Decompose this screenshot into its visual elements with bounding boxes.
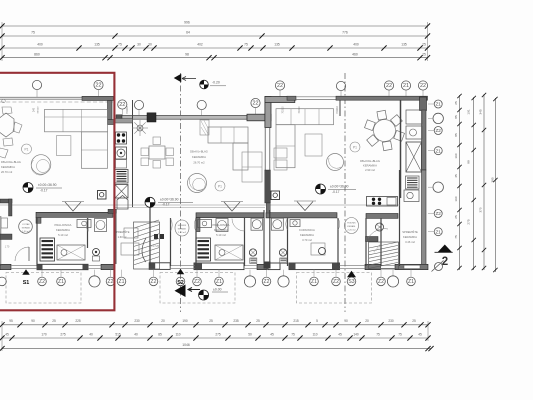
svg-text:26.70 m2: 26.70 m2 [1, 170, 13, 174]
svg-text:40: 40 [89, 333, 93, 337]
svg-text:25: 25 [454, 215, 458, 219]
svg-text:240: 240 [33, 107, 36, 112]
svg-text:275: 275 [467, 219, 471, 224]
svg-text:385: 385 [491, 177, 495, 182]
svg-text:DB+KOH+BLAG: DB+KOH+BLAG [360, 159, 380, 163]
svg-text:75: 75 [291, 333, 295, 337]
svg-text:25: 25 [454, 101, 458, 105]
svg-text:Z2: Z2 [39, 279, 45, 285]
svg-text:1.73 m2: 1.73 m2 [178, 232, 187, 234]
svg-text:45: 45 [270, 333, 274, 337]
svg-text:2.20 m2: 2.20 m2 [348, 230, 357, 232]
svg-text:190: 190 [182, 319, 188, 323]
svg-text:30: 30 [137, 43, 141, 47]
svg-text:75: 75 [376, 333, 380, 337]
svg-text:P1: P1 [353, 145, 357, 149]
svg-text:±0.00: ±0.00 [213, 288, 222, 292]
svg-text:22: 22 [252, 101, 258, 107]
svg-text:Z1: Z1 [311, 279, 317, 285]
svg-text:275: 275 [60, 333, 66, 337]
svg-text:45: 45 [5, 333, 9, 337]
svg-text:25: 25 [52, 319, 56, 323]
svg-text:70/210: 70/210 [299, 106, 301, 114]
svg-text:Z2: Z2 [435, 128, 441, 133]
svg-text:KERAMIKA: KERAMIKA [403, 235, 417, 239]
svg-text:30: 30 [148, 43, 152, 47]
svg-text:160: 160 [454, 153, 458, 158]
svg-text:2 h 17.25: 2 h 17.25 [149, 245, 160, 248]
svg-text:1.60 m²: 1.60 m² [118, 235, 127, 239]
svg-text:50: 50 [248, 333, 252, 337]
svg-text:Z2: Z2 [333, 279, 339, 285]
svg-text:3.70 m2: 3.70 m2 [302, 238, 312, 242]
svg-text:Z1: Z1 [435, 229, 441, 234]
svg-text:Z1: Z1 [435, 148, 441, 153]
svg-text:Z2: Z2 [264, 279, 270, 285]
svg-text:135: 135 [274, 43, 280, 47]
svg-text:±0.00=36.90: ±0.00=36.90 [38, 183, 57, 187]
svg-text:88: 88 [467, 160, 471, 164]
svg-text:KERAMIKA: KERAMIKA [56, 228, 70, 232]
svg-text:22: 22 [277, 83, 283, 89]
svg-text:-0.20: -0.20 [212, 81, 220, 85]
svg-text:135: 135 [94, 43, 100, 47]
svg-text:110: 110 [312, 333, 317, 337]
svg-text:26.70 m2: 26.70 m2 [193, 161, 205, 165]
svg-text:70/210: 70/210 [335, 105, 339, 113]
svg-text:90/120: 90/120 [38, 106, 40, 113]
svg-text:25: 25 [422, 52, 426, 56]
svg-text:160: 160 [454, 196, 458, 201]
svg-text:3.46 m2: 3.46 m2 [405, 240, 415, 244]
svg-text:460: 460 [352, 52, 358, 56]
svg-text:140: 140 [353, 333, 359, 337]
svg-text:75: 75 [118, 43, 122, 47]
svg-text:1.50 m2: 1.50 m2 [22, 231, 31, 233]
svg-text:22: 22 [95, 83, 101, 89]
svg-text:DB+KU+BLAG: DB+KU+BLAG [190, 150, 208, 154]
svg-text:230: 230 [388, 319, 394, 323]
svg-text:KOTAK: KOTAK [22, 223, 30, 226]
svg-text:-0.17: -0.17 [162, 203, 170, 207]
svg-text:25: 25 [412, 319, 416, 323]
svg-text:90: 90 [31, 319, 35, 323]
svg-text:85: 85 [454, 115, 458, 119]
svg-text:170: 170 [41, 333, 47, 337]
svg-text:25: 25 [209, 319, 213, 323]
svg-text:64: 64 [186, 31, 190, 35]
svg-text:5.10 m2: 5.10 m2 [58, 233, 68, 237]
svg-text:75: 75 [31, 31, 35, 35]
svg-text:21: 21 [403, 83, 409, 89]
svg-text:1046: 1046 [182, 343, 190, 347]
svg-text:400: 400 [353, 43, 359, 47]
svg-text:Z1: Z1 [216, 279, 222, 285]
svg-text:5: 5 [316, 319, 318, 323]
svg-text:25: 25 [422, 43, 426, 47]
svg-text:402: 402 [197, 43, 203, 47]
svg-text:75: 75 [398, 333, 402, 337]
svg-text:Z2: Z2 [108, 279, 114, 285]
svg-text:KERAMIKA: KERAMIKA [192, 155, 206, 159]
svg-text:20: 20 [161, 319, 165, 323]
svg-text:400: 400 [37, 43, 43, 47]
svg-text:225: 225 [75, 319, 81, 323]
svg-text:S3: S3 [348, 279, 354, 285]
svg-text:191: 191 [467, 109, 471, 114]
svg-text:Z1: Z1 [119, 279, 125, 285]
svg-text:135: 135 [401, 43, 407, 47]
svg-text:KERAM.: KERAM. [178, 228, 187, 231]
svg-text:KERAM.: KERAM. [22, 227, 31, 230]
svg-text:Z2: Z2 [435, 211, 441, 216]
svg-text:1.70: 1.70 [5, 247, 10, 249]
svg-text:70/210: 70/210 [125, 105, 129, 113]
svg-text:PRALJONICA: PRALJONICA [55, 223, 72, 227]
svg-text:345: 345 [479, 109, 483, 114]
svg-text:98: 98 [185, 52, 189, 56]
svg-text:860: 860 [34, 52, 40, 56]
svg-text:45: 45 [418, 333, 422, 337]
svg-text:370: 370 [479, 207, 483, 212]
svg-text:DB+KOH+BLAG: DB+KOH+BLAG [1, 160, 21, 164]
svg-text:KERAMIKA: KERAMIKA [300, 233, 314, 237]
svg-text:KERAMIKA: KERAMIKA [1, 165, 15, 169]
svg-text:KERAMIKA: KERAMIKA [363, 164, 377, 168]
svg-text:90: 90 [344, 319, 348, 323]
svg-text:40: 40 [134, 333, 138, 337]
svg-text:HODNIK: HODNIK [347, 223, 356, 225]
svg-text:275: 275 [215, 333, 221, 337]
svg-text:45: 45 [454, 174, 458, 178]
svg-text:22: 22 [119, 102, 125, 108]
svg-text:±0.00=36.90: ±0.00=36.90 [330, 185, 349, 189]
svg-text:-0.17: -0.17 [332, 190, 340, 194]
svg-text:776: 776 [342, 31, 348, 35]
svg-text:S1: S1 [23, 280, 30, 286]
svg-text:KERAM.: KERAM. [347, 225, 356, 228]
svg-text:5.10 m2: 5.10 m2 [216, 233, 226, 237]
svg-text:P1: P1 [25, 147, 29, 151]
svg-text:75: 75 [454, 235, 458, 239]
svg-text:85: 85 [158, 333, 162, 337]
svg-text:P1: P1 [218, 184, 222, 188]
svg-text:45: 45 [338, 333, 342, 337]
svg-text:Z1: Z1 [435, 102, 441, 107]
svg-text:±0.00=36.90: ±0.00=36.90 [160, 198, 179, 202]
svg-text:235: 235 [233, 319, 239, 323]
svg-text:-0.17: -0.17 [40, 189, 48, 193]
svg-text:S2: S2 [177, 280, 184, 286]
svg-text:75: 75 [244, 43, 248, 47]
svg-text:KUPAONICA: KUPAONICA [299, 228, 315, 232]
svg-text:Z2: Z2 [378, 279, 384, 285]
svg-text:230: 230 [134, 319, 140, 323]
svg-text:2.90 m2: 2.90 m2 [365, 168, 375, 172]
svg-text:215: 215 [293, 319, 299, 323]
svg-text:20: 20 [365, 319, 369, 323]
svg-text:Z2: Z2 [151, 279, 157, 285]
svg-text:22: 22 [420, 83, 426, 89]
svg-text:25: 25 [256, 319, 260, 323]
svg-text:HODNIK: HODNIK [178, 225, 187, 227]
svg-text:Z2: Z2 [194, 279, 200, 285]
svg-text:515: 515 [115, 333, 121, 337]
svg-text:95: 95 [9, 319, 13, 323]
svg-text:70/210: 70/210 [283, 106, 285, 114]
svg-text:22: 22 [386, 83, 392, 89]
svg-text:996: 996 [184, 20, 190, 24]
svg-text:PRALJONICA: PRALJONICA [213, 223, 230, 227]
svg-text:110: 110 [175, 333, 180, 337]
svg-text:Z1: Z1 [408, 279, 414, 285]
svg-text:85: 85 [454, 133, 458, 137]
svg-text:Z1: Z1 [58, 279, 64, 285]
